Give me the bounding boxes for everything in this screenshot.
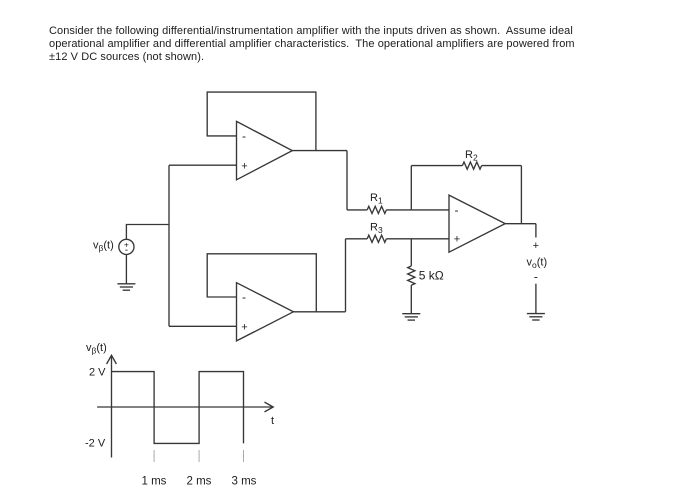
wire 5k to ground	[410, 285, 412, 313]
svg-text:-: -	[534, 270, 538, 284]
wire U2 output up to R3	[345, 239, 347, 312]
ground (below 5k)	[402, 314, 420, 320]
svg-text:+: +	[241, 160, 247, 172]
resistor R3	[346, 235, 450, 242]
x axis	[97, 402, 273, 412]
tick guide 2 ms	[198, 450, 200, 462]
ground (below source)	[117, 284, 135, 290]
svg-text:vβ(t): vβ(t)	[93, 239, 114, 253]
wire R2 down to output node	[520, 166, 522, 224]
svg-text:+: +	[533, 240, 539, 252]
svg-text:3 ms: 3 ms	[232, 476, 257, 488]
svg-text:R2: R2	[465, 149, 478, 163]
svg-text:2 ms: 2 ms	[187, 476, 212, 488]
svg-text:-: -	[242, 129, 246, 143]
svg-text:-: -	[455, 203, 459, 217]
node junction: 5k tap on non-inverting line	[410, 239, 412, 266]
svg-text:vo(t): vo(t)	[527, 257, 548, 271]
tick guide 3 ms	[243, 450, 245, 462]
node junction: R2 tap on inverting line	[410, 166, 412, 210]
wire U2 feedback loop (output to inverting input)	[207, 254, 316, 312]
svg-text:1 ms: 1 ms	[142, 476, 167, 488]
resistor R1	[347, 206, 411, 213]
problem statement text	[49, 25, 629, 63]
svg-text:-: -	[242, 290, 246, 304]
svg-text:-: -	[125, 245, 128, 256]
wire U2 output	[293, 311, 345, 313]
wire - terminal to ground	[535, 284, 537, 314]
wire input rail (joins both + inputs)	[168, 165, 170, 326]
svg-text:vβ(t): vβ(t)	[86, 342, 107, 356]
ground (below vo)	[527, 314, 545, 320]
wire R1 to inverting input of U3	[411, 209, 449, 211]
op-amp U3 (difference amplifier) triangle	[449, 195, 505, 252]
y axis	[107, 355, 117, 457]
resistor 5 kΩ (vertical)	[408, 266, 415, 285]
wire U1 output down to R1	[346, 151, 348, 210]
wire source to rail	[126, 225, 169, 240]
svg-text:-2 V: -2 V	[85, 438, 106, 450]
svg-text:2 V: 2 V	[89, 367, 106, 379]
wire U1 output	[292, 150, 347, 152]
voltage source VS (circle with + -)	[119, 239, 134, 256]
svg-text:+: +	[241, 321, 247, 333]
op-amp U2 (bottom voltage follower) triangle	[237, 283, 294, 341]
tick guide 1 ms	[153, 450, 155, 462]
resistor R2 (feedback)	[411, 162, 521, 169]
svg-text:R3: R3	[370, 222, 383, 236]
svg-text:t: t	[271, 415, 274, 427]
wire output stub down	[535, 224, 537, 238]
svg-text:5 kΩ: 5 kΩ	[419, 269, 444, 283]
wire U3 output	[505, 223, 536, 225]
waveform square wave	[112, 372, 244, 444]
op-amp U1 (top voltage follower) triangle	[237, 121, 293, 179]
wire source to ground	[125, 255, 127, 284]
svg-text:+: +	[454, 234, 460, 246]
wire U1 non-inverting input	[169, 164, 237, 166]
wire U2 non-inverting input	[169, 325, 237, 327]
wire U1 feedback loop (output to inverting input)	[207, 92, 316, 151]
svg-text:R1: R1	[370, 192, 383, 206]
